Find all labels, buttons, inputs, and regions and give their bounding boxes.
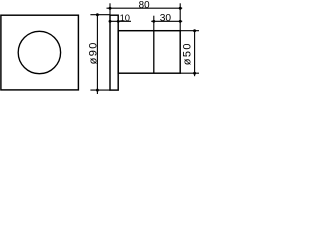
dimension 80: extension line right <box>179 3 181 30</box>
dimension 80: terminator dot left <box>109 7 112 10</box>
dimension Ø50: extension line bottom <box>180 72 199 74</box>
svg-text:ø50: ø50 <box>181 42 193 65</box>
dimension 80: dimension line <box>107 7 183 9</box>
svg-text:10: 10 <box>120 12 130 23</box>
dimension 80: terminator dot right <box>179 7 182 10</box>
dimension 30: terminator dot right <box>179 20 182 23</box>
dimension Ø90: extension line bottom <box>90 89 110 91</box>
side view: cylinder body rectangle <box>118 31 180 73</box>
svg-text:ø90: ø90 <box>87 41 99 64</box>
front view: square flange outline <box>1 15 79 90</box>
svg-text:30: 30 <box>160 13 172 24</box>
dimension Ø50: dimension line <box>194 31 196 76</box>
dimension Ø50: terminator dot bottom <box>193 72 196 75</box>
dimension 80: extension line left <box>109 3 111 15</box>
dimension Ø50: extension line top <box>180 30 199 32</box>
svg-text:80: 80 <box>139 0 150 11</box>
dimension 10: terminator dot right <box>117 20 120 23</box>
dimension Ø90: dimension line <box>96 15 98 94</box>
dimension Ø50: terminator dot top <box>193 29 196 32</box>
dimension 10: dimension line with leader <box>110 20 131 22</box>
dimension Ø90: terminator dot top <box>96 13 99 16</box>
dimension 30: terminator dot left <box>152 20 155 23</box>
dimension 30: extension line left (step edge extended above cylinder) <box>153 16 155 31</box>
side view: flange plate rectangle <box>110 15 118 90</box>
dimension 10: terminator dot left <box>109 20 112 23</box>
front view: circle (cylinder seen from front) <box>18 31 60 73</box>
side view: step feature edge on cylinder <box>153 31 155 73</box>
dimension Ø90: extension line top <box>90 14 110 16</box>
dimension 30: dimension line <box>151 20 182 22</box>
dimension Ø90: terminator dot bottom <box>96 89 99 92</box>
